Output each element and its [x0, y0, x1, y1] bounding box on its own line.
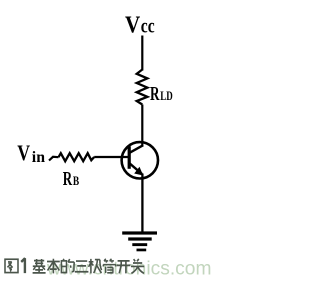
net label Vin [17, 140, 45, 166]
svg-text:LD: LD [160, 89, 173, 103]
caption 管 [103, 259, 116, 273]
caption 基 [33, 259, 46, 273]
transistor Q1 circle [122, 142, 158, 178]
net label Vcc [125, 13, 155, 39]
transistor collector diagonal [130, 145, 144, 153]
emitter arrow [134, 167, 143, 176]
caption 的 [61, 259, 74, 273]
svg-text:R: R [150, 84, 160, 105]
wire emitter to ground [141, 174, 143, 233]
resistor RB [59, 153, 95, 161]
resistor RLD [137, 70, 148, 105]
ground [122, 231, 157, 251]
svg-text:cc: cc [141, 13, 155, 37]
wire Vcc to RLD [141, 36, 143, 71]
wire RB to base [94, 156, 130, 158]
wire RLD to collector [141, 105, 143, 147]
transistor base bar [128, 146, 131, 169]
svg-text:R: R [63, 169, 73, 190]
caption 开 [117, 261, 131, 273]
caption 本 [47, 259, 60, 274]
wire Vin to RB [49, 157, 59, 161]
svg-text:V: V [17, 140, 30, 165]
svg-text:B: B [73, 174, 79, 188]
caption 极 [89, 259, 102, 274]
caption 关 [131, 259, 144, 273]
caption 三 [75, 261, 89, 272]
label RB [63, 169, 80, 190]
transistor emitter diagonal [130, 163, 143, 174]
label RLD [150, 84, 173, 105]
caption digit 1 [21, 258, 25, 273]
svg-text:in: in [32, 149, 45, 166]
caption 图1 [5, 259, 18, 272]
svg-text:V: V [125, 13, 141, 39]
